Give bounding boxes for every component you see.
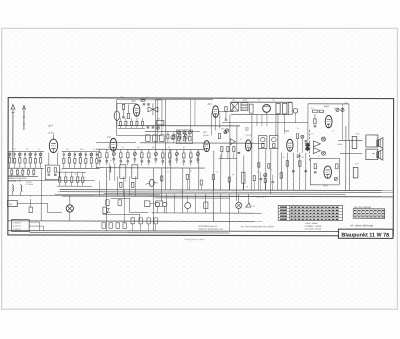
svg-text:20-30a: 20-30a	[203, 135, 209, 137]
bandswitch X box	[230, 100, 238, 112]
phase splitter star	[305, 142, 311, 151]
wire rail y142	[96, 141, 136, 143]
speaker LS1	[377, 138, 383, 149]
voltage table 2	[353, 206, 385, 219]
mixer column pair	[155, 99, 213, 149]
wire rail y194.5	[55, 194, 160, 196]
V3 lower parts row	[118, 118, 159, 130]
V4 screen resistor	[225, 107, 228, 121]
svg-text:0,5: 0,5	[216, 172, 218, 174]
V9 grid resistors	[311, 108, 336, 113]
svg-text:b 127 V: b 127 V	[13, 226, 21, 228]
IF coil stack	[241, 100, 248, 111]
small bowtie D5	[297, 155, 300, 158]
svg-text:0,1: 0,1	[93, 149, 95, 151]
diode tube V5b AB2	[245, 104, 271, 129]
svg-text:Netz: Netz	[150, 194, 154, 197]
svg-text:50: 50	[183, 147, 185, 149]
output transformer box 2	[366, 149, 378, 160]
svg-text:0,1: 0,1	[205, 196, 207, 198]
svg-text:Alt - abbrev.(Störung): Alt - abbrev.(Störung)	[349, 224, 373, 227]
tube V7	[245, 129, 252, 151]
svg-text:Stellung TA gezeich.: Stellung TA gezeich.	[8, 177, 27, 180]
resistor pair y200	[145, 201, 163, 207]
svg-text:0,5: 0,5	[38, 149, 40, 151]
svg-text:100: 100	[222, 97, 225, 99]
bus wire y232.4	[30, 231, 230, 234]
bandfilter row	[146, 129, 229, 142]
V3 cathode network	[114, 103, 136, 127]
IF transformer pair	[258, 136, 278, 149]
svg-text:0,1: 0,1	[270, 169, 272, 171]
svg-text:20-30a: 20-30a	[48, 133, 55, 135]
svg-text:0,5: 0,5	[168, 147, 170, 149]
output stage enclosure	[310, 158, 339, 185]
dial lamp L2	[246, 203, 256, 208]
svg-text:AF7: AF7	[48, 124, 53, 128]
speaker LS2	[377, 149, 383, 160]
wire rail y142	[140, 142, 265, 144]
jack J2	[163, 202, 167, 213]
svg-text:50: 50	[297, 128, 299, 130]
TA input box	[8, 200, 18, 206]
svg-text:AF7: AF7	[207, 103, 212, 106]
resistor R23	[283, 103, 287, 114]
legend box bottom left	[12, 220, 30, 232]
resistor R21	[249, 104, 253, 113]
wire rail y122	[222, 122, 308, 124]
AF coupling parts y200	[185, 194, 208, 213]
wire V4 anode	[219, 104, 233, 112]
svg-text:100: 100	[66, 149, 69, 151]
bottom small parts row 2	[131, 218, 157, 231]
coil row x108-138	[110, 163, 138, 181]
svg-text:0,1: 0,1	[58, 191, 60, 193]
svg-text:2000: 2000	[356, 133, 360, 135]
resistor R22	[276, 103, 280, 114]
tube V2 EF	[107, 136, 117, 151]
middle drop wires 2	[167, 194, 230, 231]
svg-text:50: 50	[125, 180, 127, 182]
svg-text:Feldsp.: Feldsp.	[337, 144, 343, 146]
wire V9 loop	[308, 104, 349, 141]
component value labels	[14, 97, 360, 199]
drop wires	[162, 114, 278, 221]
mains plug wires	[29, 222, 44, 231]
svg-text:Kontakte 1-12: Kontakte 1-12	[8, 180, 22, 183]
bus wire y193.4	[104, 193, 346, 196]
svg-text:Werte der Messpunkte usw.: Werte der Messpunkte usw.	[199, 228, 224, 231]
field coil resistor FR1	[337, 136, 357, 148]
svg-text:3 Trennst = Phono: 3 Trennst = Phono	[305, 228, 322, 231]
svg-text:50: 50	[190, 170, 192, 172]
tube V1 AF7	[48, 124, 58, 153]
capacitor C23	[289, 103, 292, 115]
RF coil ladder group A	[8, 152, 44, 169]
volume pot R-vol	[103, 205, 110, 213]
wire rail y197.5	[155, 197, 230, 199]
switch contact wires	[99, 168, 124, 231]
V9 cathode resistor	[314, 114, 317, 127]
bus wire y220.8	[8, 220, 261, 223]
svg-text:0,1: 0,1	[167, 171, 169, 173]
wire speaker feed	[338, 104, 374, 191]
ladder tier 2 left	[8, 168, 38, 176]
svg-text:Spg. direkt abhangig: Spg. direkt abhangig	[354, 206, 372, 209]
svg-text:4M 71,5 V: 4M 71,5 V	[257, 196, 267, 198]
svg-text:220: 220	[290, 196, 293, 198]
RF coil ladder group B	[62, 152, 100, 169]
V3 top small caps	[141, 99, 150, 105]
svg-text:100: 100	[232, 100, 235, 102]
crossed cap X1	[321, 137, 325, 141]
svg-text:100.000: 100.000	[245, 135, 251, 137]
bus wire y191.6	[60, 191, 393, 194]
svg-text:0,1: 0,1	[14, 149, 16, 151]
dial lamp L1	[236, 202, 242, 208]
detector chain rail	[231, 102, 292, 115]
svg-text:100: 100	[257, 172, 260, 174]
diode small D2	[293, 108, 298, 122]
svg-text:1200: 1200	[355, 163, 359, 165]
tube V1 coupling box	[45, 153, 59, 180]
svg-text:2 Goldton = Tonab.: 2 Goldton = Tonab.	[305, 225, 322, 228]
tube V9 AL4	[324, 104, 332, 128]
svg-text:Rückführleitung zum: Rückführleitung zum	[199, 225, 218, 228]
bus wire y195.8	[62, 195, 393, 198]
svg-text:25: 25	[75, 174, 77, 176]
variable capacitor C12	[148, 103, 158, 115]
shield dashed line	[308, 130, 310, 162]
bus wire y212.5	[152, 212, 262, 214]
legend sub text	[14, 230, 31, 233]
svg-text:AL4: AL4	[324, 104, 329, 108]
svg-text:5000: 5000	[80, 149, 84, 151]
wire lamp drops	[239, 194, 249, 213]
svg-text:0,5: 0,5	[246, 186, 248, 188]
svg-text:Blaupunkt 11 W 78: Blaupunkt 11 W 78	[341, 232, 389, 238]
tube V10 AL4	[323, 166, 331, 187]
IF ladder components	[96, 149, 205, 168]
row y136 components	[167, 131, 187, 143]
bus wire B+ y189.5	[60, 189, 393, 192]
svg-text:6000: 6000	[180, 191, 184, 193]
schematic border frame	[8, 98, 394, 236]
V8 side components	[296, 134, 307, 153]
tube V6	[203, 131, 210, 152]
svg-text:0.4: 0.4	[311, 108, 314, 110]
svg-text:n. Phono: n. Phono	[26, 184, 33, 186]
voltage table 1	[278, 205, 343, 220]
svg-text:0,2: 0,2	[311, 133, 313, 135]
svg-text:50: 50	[283, 157, 285, 159]
diode bowtie D3	[313, 141, 320, 147]
svg-text:1 Ruf = Phase: 1 Ruf = Phase	[305, 223, 319, 225]
svg-text:100: 100	[137, 147, 140, 149]
title box Blaupunkt 11 W 78	[338, 229, 393, 239]
V3 anode resistor R11	[127, 104, 129, 118]
left lower verticals	[103, 176, 149, 221]
antenna A1	[11, 105, 16, 164]
tube V4 AF7	[207, 103, 218, 118]
resistor R30	[106, 200, 122, 206]
svg-text:Reproduktion verboten: Reproduktion verboten	[185, 238, 205, 241]
left mid resistors row y177	[57, 172, 92, 186]
svg-text:5000: 5000	[243, 100, 247, 102]
svg-text:5000: 5000	[221, 129, 225, 131]
svg-text:a 220 V: a 220 V	[13, 222, 21, 224]
bus wire y230.6	[8, 230, 339, 233]
wire TA to switch	[8, 196, 95, 213]
bottom small parts row 1	[102, 223, 126, 229]
TA pickup coil 1	[12, 184, 13, 196]
jack J1	[155, 202, 159, 213]
svg-text:0,1: 0,1	[122, 147, 124, 149]
wire rail y180.5	[8, 180, 94, 182]
mid cluster x214-242	[218, 131, 240, 159]
V3 grid resistor R10	[122, 104, 125, 118]
diode bowtie D4	[313, 148, 320, 154]
wire rail y125	[118, 125, 240, 127]
decoupling resistors row y175	[161, 172, 267, 190]
pilot lamp crossed	[66, 196, 73, 221]
wire x41.5 vertical	[40, 168, 42, 221]
oval coil L20	[146, 168, 158, 231]
svg-text:0,1: 0,1	[240, 139, 242, 141]
oscillator shield box	[116, 100, 162, 136]
power supply verticals	[280, 153, 307, 191]
V10 grid resistor	[314, 164, 317, 173]
svg-text:0,1: 0,1	[146, 97, 148, 99]
svg-text:AF7: AF7	[131, 99, 136, 103]
svg-text:30: 30	[110, 160, 112, 162]
tube V8 AB2	[284, 130, 293, 152]
svg-text:0,1: 0,1	[258, 99, 260, 101]
output transformer box 1	[366, 135, 378, 147]
svg-text:0,1: 0,1	[318, 156, 320, 158]
svg-text:50: 50	[108, 147, 110, 149]
svg-text:2000: 2000	[120, 97, 124, 99]
coupling box	[156, 117, 164, 125]
V4 drop wires	[211, 113, 219, 136]
oscillator coils	[176, 130, 192, 144]
note bottom center	[199, 225, 274, 231]
TA pickup coil 2	[21, 184, 22, 196]
antenna A2	[22, 106, 25, 131]
table legend bullets	[305, 223, 322, 231]
tube V3 AF7	[131, 99, 139, 117]
svg-text:1,5: 1,5	[332, 130, 334, 132]
field coil resistor FR2	[353, 167, 358, 178]
text block Wellenschalter	[8, 174, 33, 186]
svg-text:Netzsch. a. LS-Regler: Netzsch. a. LS-Regler	[14, 230, 31, 233]
svg-text:Wellenschalter in: Wellenschalter in	[8, 174, 25, 177]
crossed cap X2	[321, 151, 325, 155]
V10 anode components	[334, 164, 338, 181]
detector drop wires	[257, 114, 285, 136]
svg-text:50: 50	[108, 205, 110, 207]
wire rail y131	[145, 130, 200, 132]
svg-text:4.A. Ton für Messpunkte (Tour: 4.A. Ton für Messpunkte (Tour 23/58)	[241, 225, 274, 228]
V9 bias trimmers	[336, 103, 348, 112]
svg-text:TA: TA	[9, 203, 12, 206]
decoupling caps x258-276	[258, 163, 274, 190]
svg-text:0,1: 0,1	[60, 169, 62, 171]
svg-text:AB2: AB2	[284, 130, 289, 133]
svg-text:200: 200	[26, 149, 29, 151]
svg-text:0,4: 0,4	[302, 157, 304, 159]
